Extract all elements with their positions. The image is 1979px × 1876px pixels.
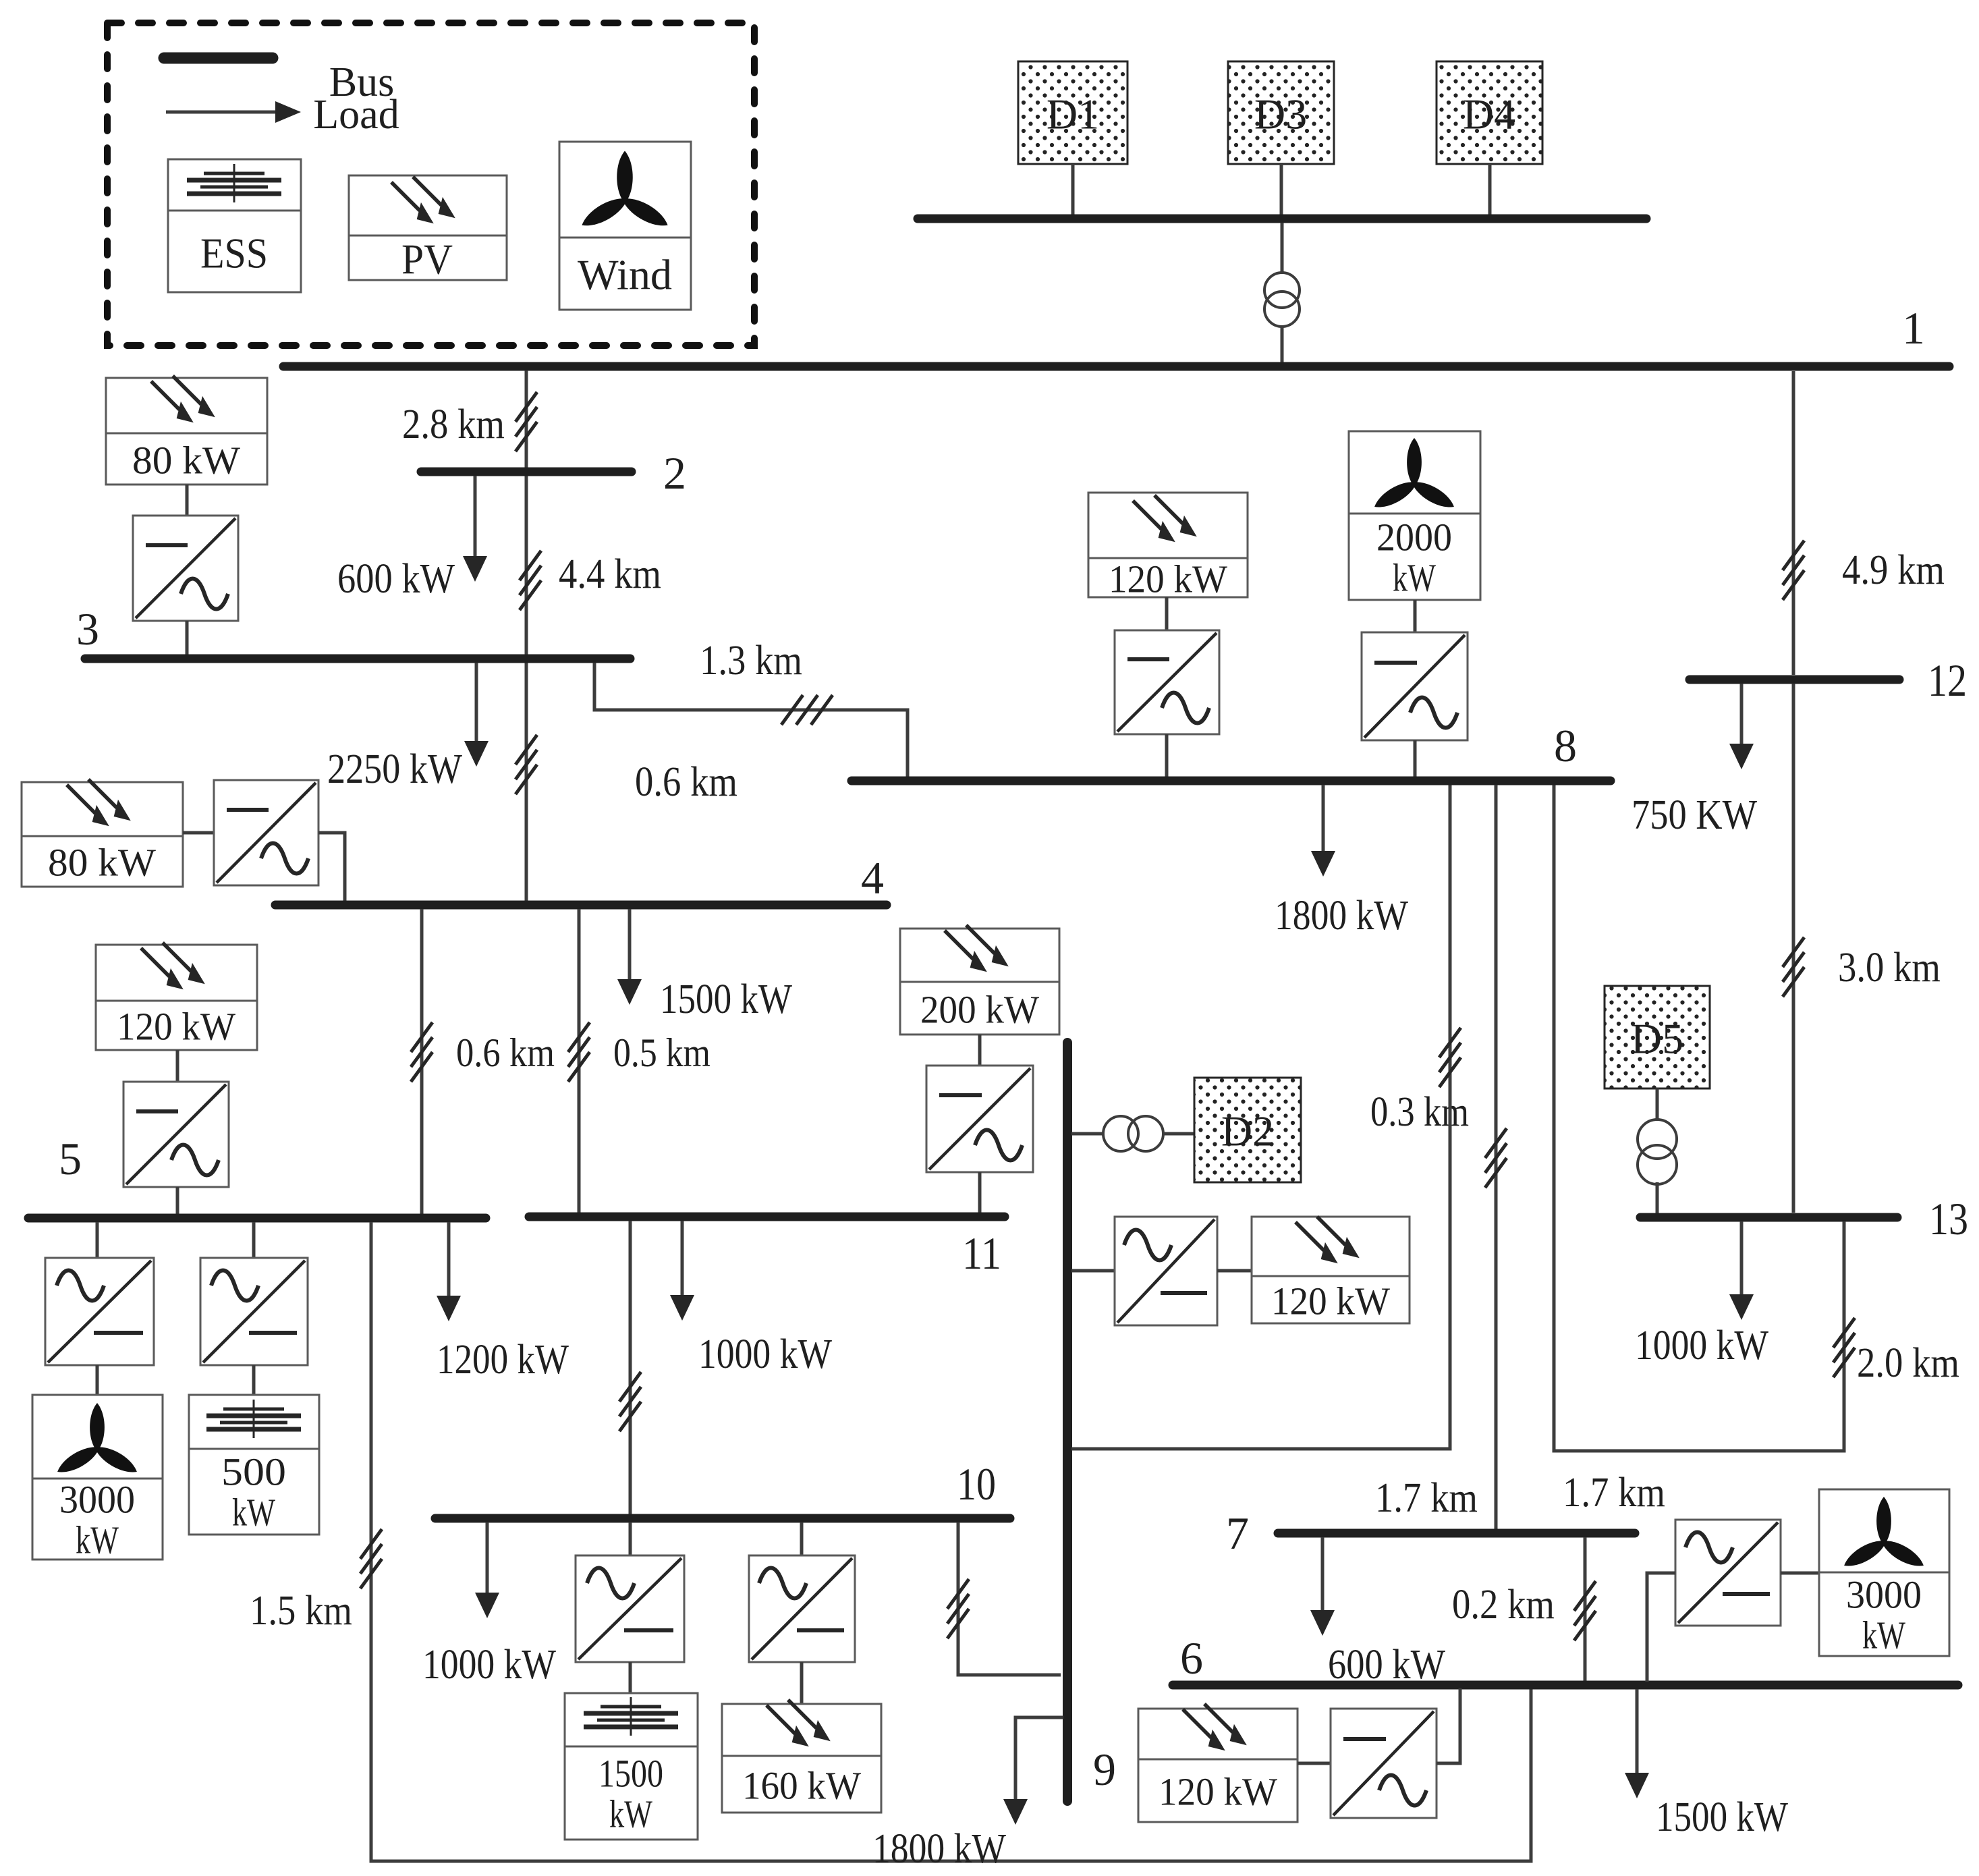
svg-text:Load: Load bbox=[313, 92, 399, 138]
svg-text:kW: kW bbox=[76, 1518, 119, 1562]
svg-text:80 kW: 80 kW bbox=[132, 439, 240, 482]
break marks 0.5 km bbox=[568, 1022, 590, 1082]
substation D4 bbox=[1437, 61, 1542, 164]
substation D2 bbox=[1194, 1078, 1301, 1182]
svg-text:D1: D1 bbox=[1047, 90, 1099, 138]
PV 80 kW at bus 4 bbox=[22, 782, 183, 887]
svg-text:10: 10 bbox=[957, 1458, 996, 1510]
line bus4-bus5 0.6 km bbox=[420, 909, 424, 1214]
line bus11-bus10 bbox=[629, 1221, 632, 1514]
load at bus 4 bbox=[617, 909, 642, 1005]
break marks 4.9 km bbox=[1783, 541, 1804, 600]
svg-text:1: 1 bbox=[1902, 302, 1925, 354]
svg-text:160 kW: 160 kW bbox=[742, 1764, 861, 1808]
wire PV to converter bus11 bbox=[978, 1034, 982, 1066]
PV 120 kW at bus 9 bbox=[1252, 1217, 1410, 1323]
break marks 4.4 km bbox=[520, 551, 541, 610]
converter PV bus4 bbox=[214, 780, 318, 885]
PV 120 kW at bus 5 bbox=[96, 945, 257, 1050]
svg-text:120 kW: 120 kW bbox=[1159, 1770, 1277, 1814]
line bus1-bus2-bus3-bus4 bbox=[525, 370, 528, 901]
bus 5 bbox=[28, 1214, 486, 1223]
bus 9 bbox=[1063, 1043, 1072, 1801]
converter PV bus8 bbox=[1115, 630, 1219, 734]
svg-text:2.0 km: 2.0 km bbox=[1857, 1340, 1959, 1386]
svg-text:80 kW: 80 kW bbox=[48, 841, 156, 885]
svg-text:4: 4 bbox=[861, 852, 884, 904]
wire bus9 to PV converter bbox=[1071, 1269, 1115, 1273]
load at bus 3 bbox=[464, 663, 489, 767]
line bus13-bus8 2.0 km bbox=[1554, 785, 1844, 1451]
converter wind 3000 bus6 bbox=[1675, 1520, 1781, 1626]
svg-text:0.6 km: 0.6 km bbox=[456, 1030, 555, 1075]
wire converter to bus 6 bbox=[1437, 1688, 1460, 1763]
wire converter to wind box bbox=[96, 1365, 99, 1395]
wire bus10 to ESS converter bbox=[629, 1522, 632, 1555]
wire converter to wind box bus6 bbox=[1781, 1572, 1819, 1575]
legend bus symbol bbox=[164, 53, 273, 64]
load at bus 2 bbox=[463, 476, 487, 582]
wire converter to PV 160 box bbox=[800, 1662, 804, 1704]
svg-text:1500: 1500 bbox=[598, 1752, 663, 1796]
converter PV 160 bus10 bbox=[749, 1555, 855, 1662]
wire converter to bus 4 bbox=[318, 833, 345, 902]
svg-text:120 kW: 120 kW bbox=[1109, 557, 1227, 601]
load at bus 10 bbox=[475, 1522, 499, 1618]
wire PV to converter bus4 bbox=[183, 831, 214, 835]
svg-text:0.2 km: 0.2 km bbox=[1452, 1582, 1555, 1628]
wire transformer T5 to bus 13 bbox=[1656, 1182, 1659, 1215]
converter PV bus11 bbox=[926, 1066, 1033, 1172]
svg-text:12: 12 bbox=[1928, 655, 1967, 706]
converter PV bus6 bbox=[1331, 1709, 1437, 1818]
svg-text:0.3 km: 0.3 km bbox=[1370, 1089, 1469, 1135]
load at bus 8 bbox=[1311, 785, 1335, 877]
break marks 1.7 km bus9-bus8 bbox=[1439, 1028, 1461, 1087]
wire PV box to converter bus6 bbox=[1298, 1762, 1331, 1765]
bus 7 bbox=[1278, 1529, 1635, 1538]
converter PV bus3 bbox=[133, 516, 238, 621]
svg-text:D4: D4 bbox=[1463, 90, 1515, 138]
line bus9-bus8 1.7 km bbox=[1071, 785, 1450, 1449]
bus 12 bbox=[1690, 675, 1899, 684]
load at bus 12 bbox=[1729, 684, 1754, 769]
converter ESS 500 bus5 bbox=[200, 1258, 308, 1365]
svg-text:3000: 3000 bbox=[59, 1478, 135, 1522]
bus 6 bbox=[1173, 1681, 1958, 1690]
svg-text:2: 2 bbox=[663, 447, 686, 499]
wire PV to converter bus8 bbox=[1165, 597, 1169, 630]
wire D5 to transformer T5 bbox=[1656, 1088, 1659, 1121]
break marks bus10-bus9 bbox=[947, 1579, 969, 1638]
svg-text:120 kW: 120 kW bbox=[1271, 1279, 1390, 1323]
wire converter to bus 6 riser bbox=[1647, 1573, 1675, 1682]
svg-text:4.4 km: 4.4 km bbox=[559, 551, 661, 597]
line bus12-bus13 3.0 km bbox=[1792, 684, 1795, 1213]
bus 1 bbox=[283, 362, 1949, 371]
wire D3 to top bus bbox=[1280, 164, 1283, 216]
line bus4-bus11 0.5 km bbox=[578, 909, 581, 1213]
svg-text:1200 kW: 1200 kW bbox=[437, 1337, 569, 1383]
wire converter wind to bus 8 bbox=[1414, 740, 1417, 777]
svg-text:1800 kW: 1800 kW bbox=[1275, 893, 1408, 939]
wire bus10 to PV converter bbox=[800, 1522, 804, 1555]
transformer T1 bbox=[1264, 273, 1300, 327]
line bus10-bus9 bbox=[958, 1522, 1061, 1675]
line bus3-bus8 1.3 km bbox=[594, 663, 908, 777]
bus 8 bbox=[852, 777, 1611, 785]
svg-text:0.5 km: 0.5 km bbox=[613, 1030, 710, 1075]
wire bus5 to ESS converter bbox=[252, 1222, 256, 1258]
converter wind 3000 bus5 bbox=[45, 1258, 154, 1365]
break marks bus11-bus10 bbox=[619, 1372, 641, 1431]
svg-text:8: 8 bbox=[1554, 720, 1577, 771]
svg-text:11: 11 bbox=[962, 1227, 1001, 1279]
svg-text:4.9 km: 4.9 km bbox=[1842, 547, 1945, 593]
svg-text:1.3 km: 1.3 km bbox=[700, 638, 802, 684]
svg-text:13: 13 bbox=[1929, 1193, 1968, 1244]
break marks 1.7 km bus8-bus7 bbox=[1485, 1128, 1507, 1188]
bus 13 bbox=[1640, 1213, 1897, 1222]
wire D1 to top bus bbox=[1071, 164, 1075, 216]
substation D5 bbox=[1605, 986, 1710, 1088]
svg-text:200 kW: 200 kW bbox=[920, 988, 1039, 1032]
bus 2 bbox=[421, 468, 632, 476]
svg-text:3000: 3000 bbox=[1846, 1573, 1922, 1617]
svg-text:6: 6 bbox=[1180, 1632, 1203, 1684]
converter PV bus9 bbox=[1115, 1217, 1217, 1325]
legend Wind symbol bbox=[559, 142, 691, 310]
line bus7-bus6 0.2 km bbox=[1584, 1537, 1587, 1682]
svg-text:600 kW: 600 kW bbox=[337, 556, 455, 602]
PV 120 kW at bus 6 bbox=[1138, 1709, 1298, 1822]
svg-text:7: 7 bbox=[1226, 1508, 1249, 1559]
wire converter to bus 5 bbox=[176, 1187, 179, 1215]
svg-text:2000: 2000 bbox=[1376, 516, 1452, 559]
svg-text:1500 kW: 1500 kW bbox=[1656, 1794, 1788, 1840]
PV 80 kW at bus 3 bbox=[106, 378, 267, 485]
wire transformer T1 to bus 1 bbox=[1281, 326, 1284, 364]
wire D4 to top bus bbox=[1488, 164, 1492, 216]
svg-text:3.0 km: 3.0 km bbox=[1838, 945, 1941, 991]
wire converter to bus 3 bbox=[186, 621, 189, 656]
wire wind to converter bus8 bbox=[1414, 600, 1417, 632]
break marks 3.0 km bbox=[1783, 937, 1804, 997]
svg-text:750 KW: 750 KW bbox=[1632, 792, 1757, 838]
break marks 0.2 km bbox=[1574, 1581, 1596, 1640]
load at bus 13 bbox=[1729, 1221, 1754, 1320]
top distribution bus bbox=[918, 215, 1646, 223]
svg-text:1.7 km: 1.7 km bbox=[1375, 1475, 1478, 1521]
bus 10 bbox=[435, 1514, 1010, 1523]
wire bus5 to wind converter bbox=[96, 1222, 99, 1258]
wind turbine 3000 kW at bus 6 bbox=[1819, 1489, 1949, 1656]
transformer T5 bbox=[1638, 1120, 1677, 1184]
svg-text:D2: D2 bbox=[1221, 1107, 1274, 1155]
svg-text:kW: kW bbox=[1862, 1613, 1905, 1657]
svg-text:ESS: ESS bbox=[200, 229, 268, 277]
PV 160 kW at bus 10 bbox=[722, 1704, 881, 1813]
ESS 1500 kW at bus 10 bbox=[565, 1693, 698, 1840]
bus 3 bbox=[85, 655, 630, 663]
substation D3 bbox=[1228, 61, 1334, 164]
wire converter to ESS box bbox=[252, 1365, 256, 1395]
load at bus 7 bbox=[1310, 1537, 1335, 1636]
line bus5-bus6 1.5 km bbox=[371, 1222, 1531, 1861]
wire top bus to transformer T1 bbox=[1281, 223, 1284, 273]
svg-text:1.7 km: 1.7 km bbox=[1563, 1470, 1665, 1516]
wire converter to ESS 1500 box bbox=[629, 1662, 632, 1693]
svg-text:500: 500 bbox=[221, 1450, 286, 1494]
break marks 1.3 km bbox=[781, 695, 833, 725]
svg-text:1000 kW: 1000 kW bbox=[422, 1642, 556, 1688]
bus 4 bbox=[275, 901, 887, 910]
svg-text:Wind: Wind bbox=[578, 251, 672, 299]
svg-text:1000 kW: 1000 kW bbox=[698, 1331, 832, 1377]
break marks 1.5 km bbox=[360, 1529, 382, 1589]
svg-text:1800 kW: 1800 kW bbox=[872, 1826, 1006, 1872]
svg-text:2250 kW: 2250 kW bbox=[327, 746, 462, 792]
break marks 0.6 km bus3-bus4 bbox=[515, 735, 537, 794]
PV 200 kW at bus 11 bbox=[900, 929, 1059, 1034]
legend box bbox=[107, 23, 754, 346]
wire PV to converter bbox=[186, 485, 189, 516]
PV 120 kW at bus 8 bbox=[1088, 493, 1248, 597]
converter ESS 1500 bus10 bbox=[576, 1555, 684, 1662]
svg-text:1000 kW: 1000 kW bbox=[1635, 1323, 1768, 1369]
load at bus 6 bbox=[1625, 1689, 1649, 1798]
svg-text:kW: kW bbox=[1393, 556, 1436, 600]
wire converter to bus 8 bbox=[1165, 734, 1169, 777]
transformer T2 bbox=[1103, 1116, 1163, 1151]
svg-text:0.6 km: 0.6 km bbox=[635, 759, 737, 805]
svg-text:PV: PV bbox=[401, 236, 453, 283]
break marks 0.6 km bus4-bus5 bbox=[411, 1022, 433, 1082]
wire PV to converter bus5 bbox=[176, 1050, 179, 1082]
wire converter to bus 11 bbox=[978, 1172, 982, 1214]
svg-text:D3: D3 bbox=[1254, 90, 1307, 138]
svg-text:kW: kW bbox=[232, 1491, 275, 1535]
svg-text:1.5 km: 1.5 km bbox=[250, 1588, 352, 1634]
wire converter to PV 120 box bus9 bbox=[1217, 1269, 1252, 1273]
converter wind bus8 bbox=[1362, 632, 1468, 740]
svg-text:9: 9 bbox=[1093, 1744, 1116, 1795]
wind turbine 3000 kW at bus 5 bbox=[32, 1395, 163, 1560]
svg-text:D5: D5 bbox=[1631, 1015, 1683, 1063]
legend ESS symbol bbox=[168, 159, 301, 292]
wire bus9 to transformer T2 bbox=[1071, 1132, 1104, 1136]
wire transformer T2 to D2 bbox=[1163, 1132, 1194, 1136]
ESS 500 kW at bus 5 bbox=[189, 1395, 319, 1535]
substation D1 bbox=[1018, 61, 1127, 164]
load at bus 9 bbox=[1003, 1717, 1063, 1825]
wind turbine 2000 kW at bus 8 bbox=[1349, 431, 1480, 600]
svg-text:2.8 km: 2.8 km bbox=[402, 402, 505, 447]
break marks 2.0 km bbox=[1833, 1318, 1855, 1377]
legend load arrow symbol bbox=[166, 101, 301, 123]
svg-text:5: 5 bbox=[59, 1133, 82, 1184]
load at bus 11 bbox=[670, 1221, 694, 1321]
svg-text:kW: kW bbox=[609, 1792, 652, 1836]
bus 11 bbox=[529, 1213, 1005, 1221]
legend PV symbol bbox=[349, 175, 507, 280]
svg-text:3: 3 bbox=[76, 603, 99, 655]
load at bus 5 bbox=[437, 1222, 461, 1321]
svg-text:1500 kW: 1500 kW bbox=[660, 976, 792, 1022]
line bus8-bus7 1.7 km bbox=[1495, 785, 1498, 1529]
svg-text:120 kW: 120 kW bbox=[117, 1005, 235, 1049]
break marks 2.8 km bbox=[515, 392, 537, 451]
converter PV bus5 bbox=[123, 1082, 229, 1187]
line bus1-bus12 4.9 km bbox=[1792, 371, 1795, 675]
